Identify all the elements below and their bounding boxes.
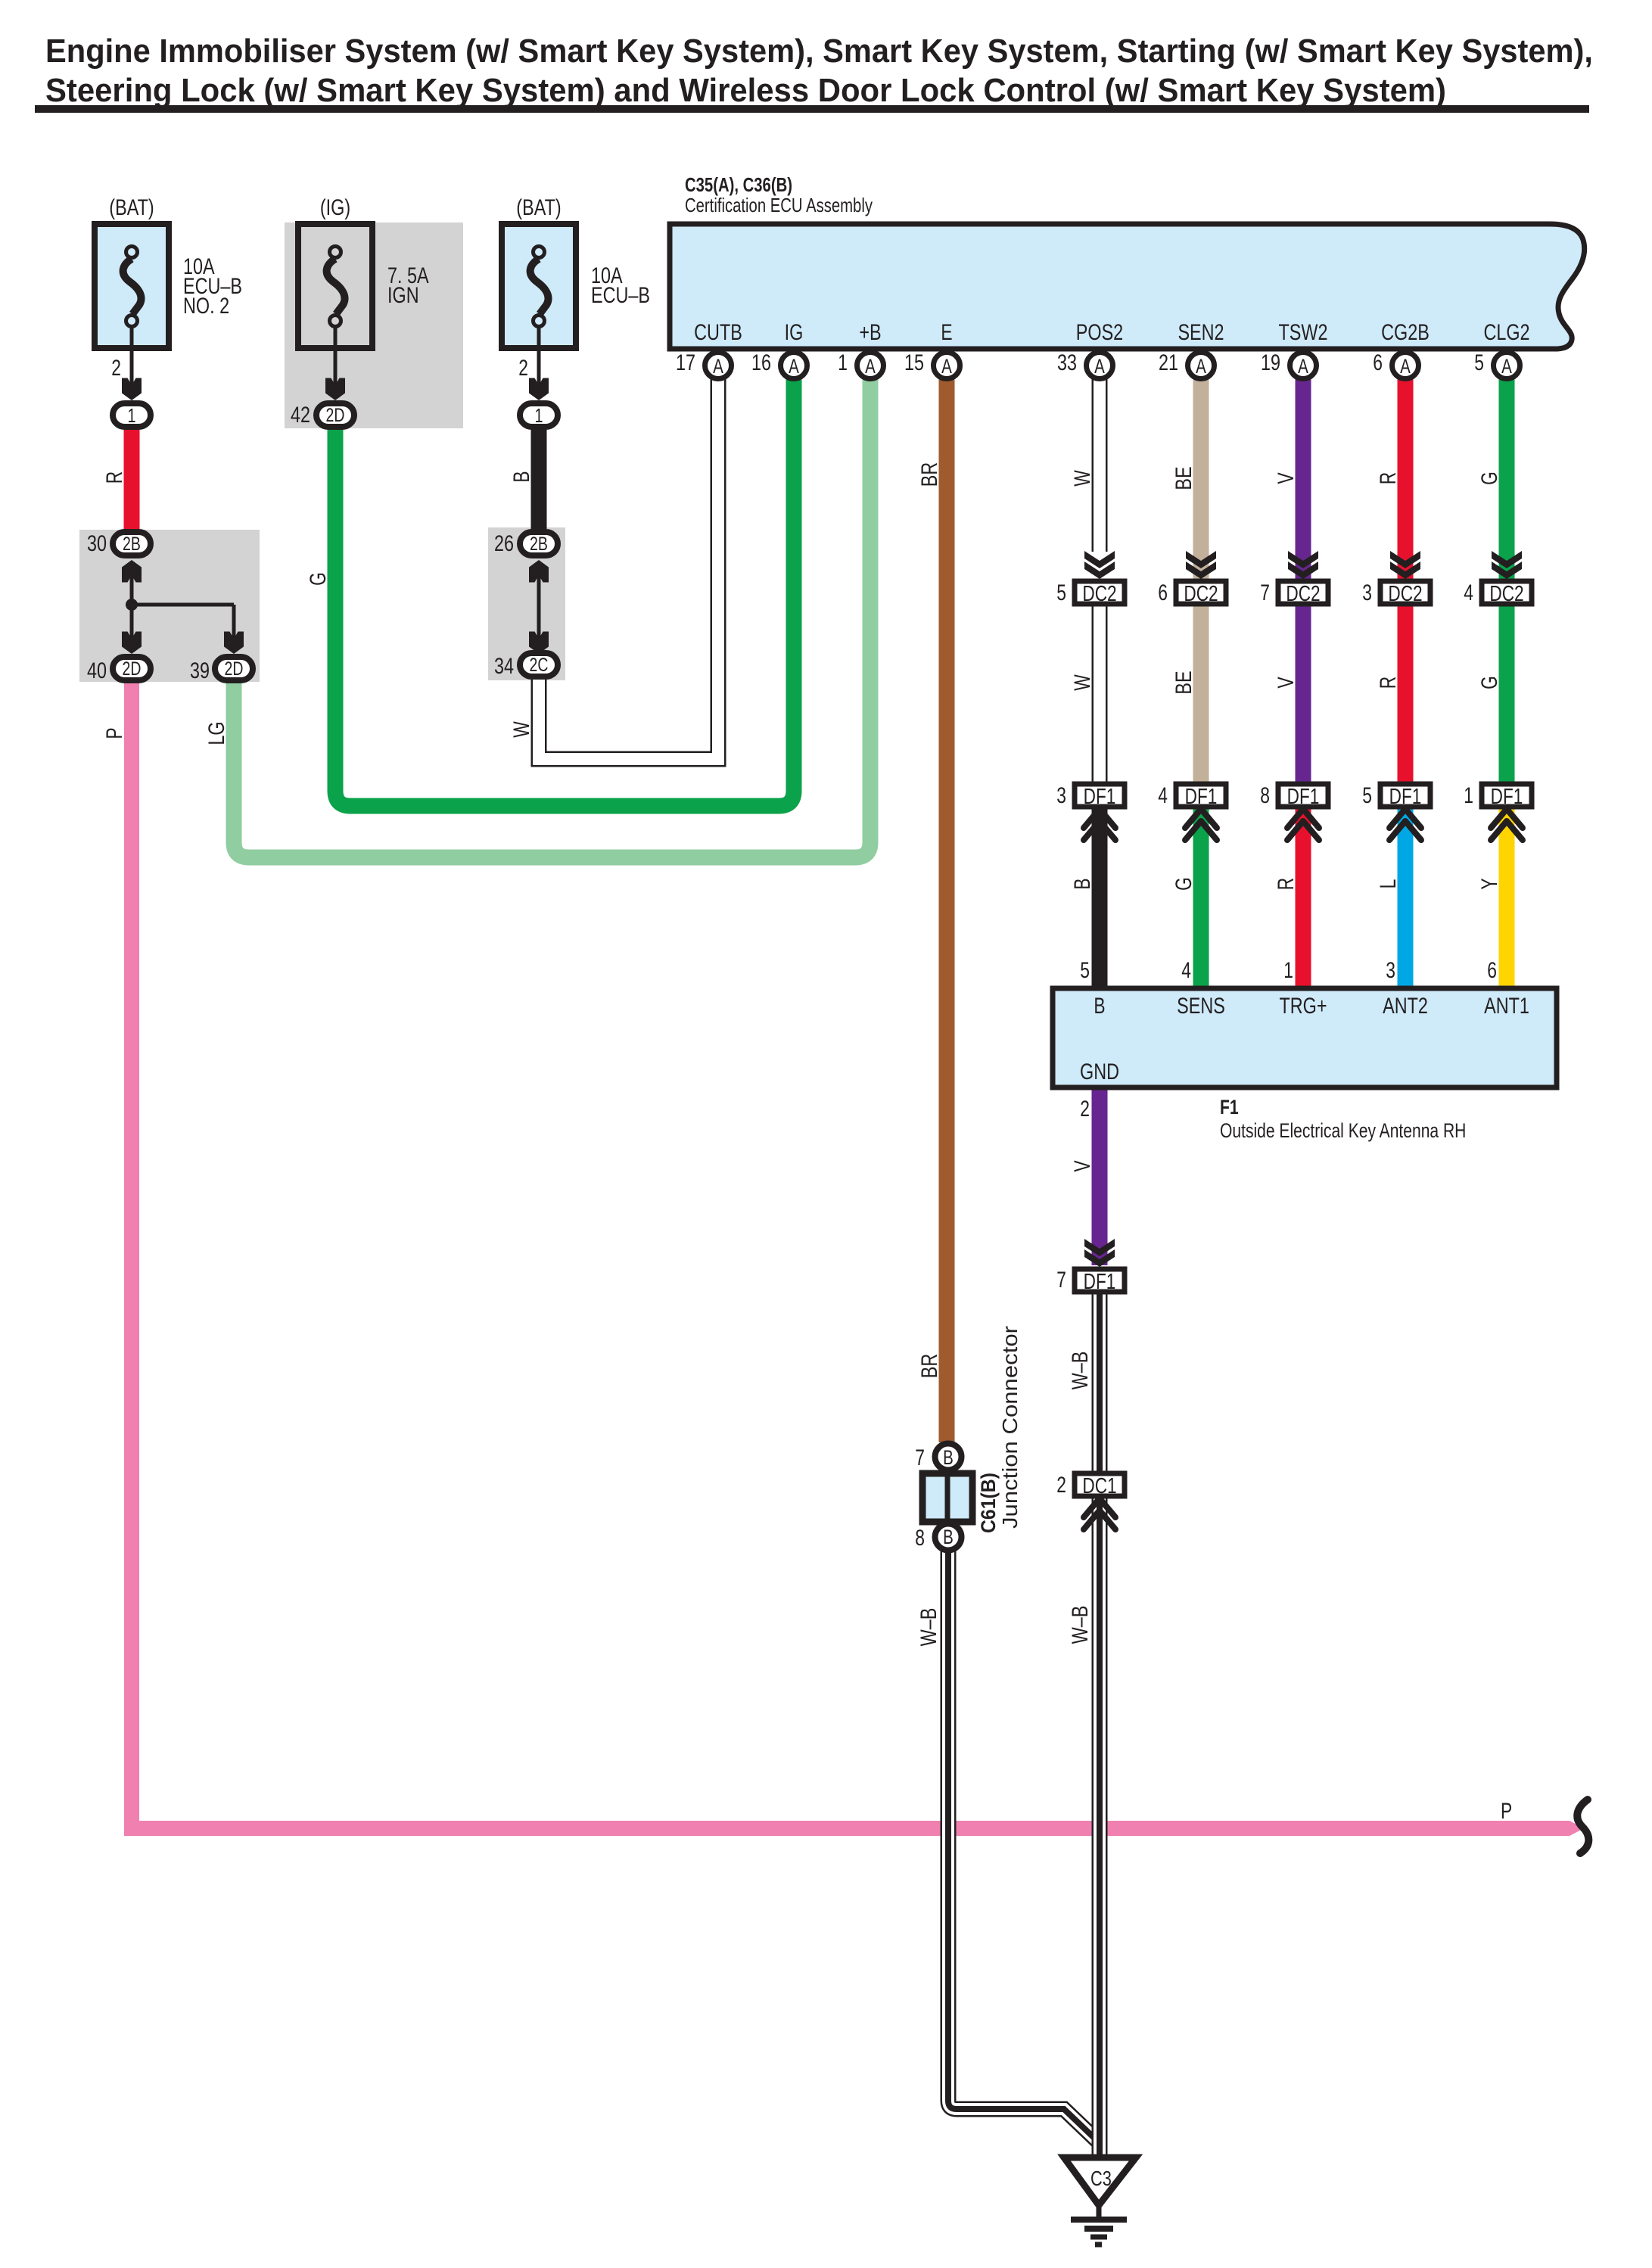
svg-text:8: 8 bbox=[915, 1526, 925, 1551]
svg-text:5: 5 bbox=[1362, 783, 1372, 808]
ECU pin 17 A (CUTB) bbox=[676, 350, 732, 379]
svg-text:DF1: DF1 bbox=[1084, 1270, 1116, 1294]
svg-text:B: B bbox=[943, 1526, 954, 1548]
svg-text:TRG+: TRG+ bbox=[1279, 994, 1327, 1019]
svg-text:W: W bbox=[1070, 470, 1095, 487]
svg-text:2D: 2D bbox=[225, 658, 244, 680]
wire L (5 DF1 to F1 pin ANT2) bbox=[1398, 807, 1414, 988]
svg-text:C3: C3 bbox=[1090, 2167, 1112, 2190]
ground stem bbox=[1097, 2205, 1102, 2220]
junction node dot bbox=[126, 599, 138, 611]
svg-text:E: E bbox=[941, 320, 952, 345]
ECU pin 5 A (CLG2) bbox=[1474, 350, 1520, 379]
svg-text:W–B: W–B bbox=[1068, 1352, 1093, 1390]
wire Y (1 DF1 to F1 pin ANT1) bbox=[1499, 807, 1515, 988]
svg-text:33: 33 bbox=[1057, 350, 1077, 375]
svg-text:2: 2 bbox=[1056, 1473, 1066, 1498]
ground bar 2 bbox=[1084, 2226, 1113, 2232]
arrow up into 26 2B bbox=[529, 560, 549, 583]
svg-text:V: V bbox=[1274, 677, 1299, 688]
svg-text:Engine Immobiliser System (w/: Engine Immobiliser System (w/ Smart Key … bbox=[45, 33, 1593, 70]
svg-text:A: A bbox=[1094, 355, 1105, 378]
grey junction block 2B/2C (fuse ECU-B column) bbox=[488, 527, 565, 680]
svg-text:2C: 2C bbox=[530, 655, 549, 676]
grey junction-block background behind fuse IG bbox=[285, 222, 463, 428]
wire G (42 2D to ECU pin IG) bbox=[335, 375, 794, 806]
arrow into 40 2D bbox=[122, 632, 142, 655]
chevron junction below 3 DF1 bbox=[1084, 809, 1115, 840]
Certification ECU Assembly box C35/C36 bbox=[670, 224, 1585, 349]
wire branch down to 39 2D bbox=[232, 605, 236, 639]
svg-text:IG: IG bbox=[785, 320, 804, 345]
svg-text:W–B: W–B bbox=[916, 1608, 941, 1647]
chevron junction into 7 DC2 bbox=[1288, 551, 1318, 579]
arrow up into 30 2B bbox=[122, 560, 142, 583]
title underline bbox=[35, 105, 1589, 113]
svg-text:IGN: IGN bbox=[387, 283, 419, 308]
wire BR (ECU pin E to C61 7B) bbox=[939, 375, 955, 1442]
svg-text:G: G bbox=[306, 572, 331, 586]
svg-text:1: 1 bbox=[1464, 783, 1473, 808]
svg-text:P: P bbox=[102, 727, 127, 739]
svg-text:7: 7 bbox=[1260, 580, 1270, 605]
svg-text:POS2: POS2 bbox=[1076, 320, 1123, 345]
wire W (ECU pin POS2 down to 3 DF1, white) bbox=[1092, 375, 1108, 784]
wire W-B (C61 8B down, right, into ground C3, left) bbox=[948, 1551, 1097, 2141]
fuse 7.5A IGN (IG) bbox=[298, 195, 429, 348]
svg-text:15: 15 bbox=[904, 350, 924, 375]
svg-text:39: 39 bbox=[190, 658, 210, 683]
arrow into 42 2D bbox=[325, 378, 345, 401]
svg-text:16: 16 bbox=[751, 350, 771, 375]
svg-text:4: 4 bbox=[1181, 958, 1191, 983]
svg-text:P: P bbox=[1501, 1799, 1512, 1824]
connector box 7 DC2 bbox=[1260, 580, 1328, 606]
svg-text:BE: BE bbox=[1171, 670, 1196, 694]
wire B (fuse ECU-B to 26 2B) bbox=[531, 427, 547, 532]
chevron junction below 1 DF1 bbox=[1491, 809, 1523, 840]
svg-text:Outside Electrical Key Antenna: Outside Electrical Key Antenna RH bbox=[1220, 1119, 1466, 1142]
C61 pin 8 B circle bbox=[915, 1524, 961, 1551]
chevron junction below 5 DF1 bbox=[1389, 809, 1421, 840]
svg-text:F1: F1 bbox=[1220, 1096, 1239, 1118]
svg-text:3: 3 bbox=[1362, 580, 1372, 605]
wire V (F1 GND pin 2 to 7 DF1) bbox=[1092, 1087, 1108, 1265]
wire V (ECU pin TSW2 down to 8 DF1) bbox=[1296, 375, 1311, 581]
connector box 5 DF1 bbox=[1362, 783, 1430, 809]
svg-text:CUTB: CUTB bbox=[694, 320, 742, 345]
svg-text:DF1: DF1 bbox=[1084, 785, 1116, 809]
svg-text:TSW2: TSW2 bbox=[1279, 320, 1328, 345]
svg-text:5: 5 bbox=[1056, 580, 1066, 605]
arrow into connector 1 bbox=[122, 378, 142, 401]
svg-text:1: 1 bbox=[1283, 958, 1293, 983]
svg-text:1: 1 bbox=[535, 404, 543, 427]
svg-text:A: A bbox=[865, 355, 876, 378]
connector box 2 DC1 bbox=[1056, 1473, 1125, 1498]
svg-text:(BAT): (BAT) bbox=[516, 195, 561, 220]
fuse 10A ECU-B (BAT) bbox=[502, 195, 650, 348]
svg-text:ECU–B: ECU–B bbox=[591, 283, 650, 308]
F1 Outside Electrical Key Antenna RH box bbox=[1053, 988, 1557, 1087]
title bbox=[45, 33, 1593, 109]
wire fuse ECU-B to connector 1 bbox=[537, 327, 541, 387]
connector box 7 DF1 bbox=[1056, 1268, 1125, 1294]
connector box 3 DC2 bbox=[1362, 580, 1430, 606]
svg-text:W: W bbox=[509, 721, 534, 738]
svg-text:6: 6 bbox=[1487, 958, 1497, 983]
fuse 10A ECU-B NO.2 (BAT) bbox=[95, 195, 242, 348]
svg-text:7: 7 bbox=[915, 1445, 925, 1470]
wire G (ECU pin CLG2 down to 1 DF1) bbox=[1499, 375, 1515, 581]
C61 box divider bbox=[945, 1473, 950, 1522]
svg-text:ANT2: ANT2 bbox=[1383, 994, 1428, 1019]
svg-text:(IG): (IG) bbox=[320, 195, 350, 220]
connector box 8 DF1 bbox=[1260, 783, 1328, 809]
svg-text:BR: BR bbox=[917, 1354, 942, 1379]
wire R (fuse ECU-B NO.2 to 30 2B) bbox=[124, 427, 140, 532]
svg-text:LG: LG bbox=[204, 721, 229, 745]
arrow into connector 1 (right) bbox=[529, 378, 549, 401]
svg-text:A: A bbox=[1501, 355, 1512, 378]
svg-text:DC2: DC2 bbox=[1286, 582, 1320, 606]
svg-text:SEN2: SEN2 bbox=[1178, 320, 1224, 345]
chevron junction into 4 DC2 bbox=[1492, 551, 1522, 579]
svg-text:A: A bbox=[1298, 355, 1308, 378]
grey junction block 2B/2D left bbox=[79, 530, 260, 682]
chevron junction below 8 DF1 bbox=[1287, 809, 1319, 840]
svg-text:B: B bbox=[509, 471, 534, 482]
svg-text:2B: 2B bbox=[530, 534, 548, 555]
connector box 3 DF1 bbox=[1056, 783, 1125, 809]
svg-text:W–B: W–B bbox=[1068, 1606, 1093, 1644]
svg-text:L: L bbox=[1376, 879, 1401, 889]
svg-text:A: A bbox=[1400, 355, 1411, 378]
ECU pin 19 A (TSW2) bbox=[1261, 350, 1317, 379]
ECU pin 1 A (+B) bbox=[838, 350, 883, 379]
svg-text:SENS: SENS bbox=[1177, 994, 1225, 1019]
svg-text:G: G bbox=[1477, 676, 1502, 689]
svg-text:6: 6 bbox=[1373, 350, 1383, 375]
svg-text:40: 40 bbox=[87, 658, 107, 683]
svg-text:BE: BE bbox=[1171, 466, 1196, 490]
svg-text:1: 1 bbox=[838, 350, 848, 375]
svg-text:V: V bbox=[1070, 1160, 1095, 1171]
svg-text:CG2B: CG2B bbox=[1381, 320, 1430, 345]
svg-text:V: V bbox=[1274, 472, 1299, 484]
svg-text:Certification ECU Assembly: Certification ECU Assembly bbox=[685, 194, 873, 216]
ground bar 4 bbox=[1095, 2242, 1102, 2248]
C61(B) junction connector box bbox=[922, 1473, 972, 1522]
svg-text:7: 7 bbox=[1056, 1268, 1066, 1293]
svg-text:G: G bbox=[1477, 471, 1502, 485]
svg-text:R: R bbox=[1376, 677, 1401, 689]
svg-text:DF1: DF1 bbox=[1185, 785, 1218, 809]
svg-text:DF1: DF1 bbox=[1389, 785, 1422, 809]
svg-text:2D: 2D bbox=[326, 405, 345, 426]
svg-text:B: B bbox=[1094, 994, 1105, 1019]
svg-text:R: R bbox=[1274, 878, 1299, 891]
ground bar 1 bbox=[1071, 2217, 1127, 2223]
ECU pin 16 A (IG) bbox=[751, 350, 807, 379]
wire W (34 2C to ECU pin CUTB, white) bbox=[539, 375, 718, 759]
svg-text:Steering Lock (w/ Smart Key Sy: Steering Lock (w/ Smart Key System) and … bbox=[45, 72, 1446, 109]
wire fuse (IG) to connector 42 2D bbox=[334, 327, 338, 387]
svg-text:(BAT): (BAT) bbox=[109, 195, 154, 220]
svg-text:4: 4 bbox=[1158, 783, 1168, 808]
svg-text:A: A bbox=[1196, 355, 1206, 378]
connector box 1 DF1 bbox=[1464, 783, 1532, 809]
svg-text:A: A bbox=[941, 355, 952, 378]
svg-text:5: 5 bbox=[1474, 350, 1484, 375]
connector box 5 DC2 bbox=[1056, 580, 1125, 606]
svg-text:3: 3 bbox=[1056, 783, 1066, 808]
svg-text:2B: 2B bbox=[123, 534, 141, 555]
wire P (pink) from 40 2D down and across bottom bbox=[132, 683, 1570, 1828]
connector 40 2D bbox=[87, 657, 151, 683]
svg-text:R: R bbox=[102, 471, 127, 484]
ECU pin 15 A (E) bbox=[904, 350, 960, 379]
svg-text:8: 8 bbox=[1260, 783, 1270, 808]
connector 30 2B bbox=[87, 531, 151, 556]
wire 26 2B to 34 2C bbox=[537, 575, 541, 639]
svg-text:2: 2 bbox=[518, 356, 528, 381]
svg-text:3: 3 bbox=[1386, 958, 1395, 983]
svg-text:B: B bbox=[1070, 878, 1095, 889]
connector box 6 DC2 bbox=[1158, 580, 1226, 606]
svg-text:NO. 2: NO. 2 bbox=[183, 294, 229, 319]
svg-text:17: 17 bbox=[676, 350, 695, 375]
svg-text:W: W bbox=[1070, 674, 1095, 691]
svg-text:+B: +B bbox=[859, 320, 881, 345]
svg-text:DC2: DC2 bbox=[1184, 582, 1218, 606]
svg-text:DC2: DC2 bbox=[1082, 582, 1116, 606]
svg-text:DF1: DF1 bbox=[1491, 785, 1523, 809]
wire junction dot to 39 branch bbox=[132, 603, 234, 607]
chevron junction into 5 DC2 bbox=[1084, 551, 1115, 579]
svg-text:6: 6 bbox=[1158, 580, 1168, 605]
wire W-B (7 DF1 to 2 DC1 to ground C3, right) bbox=[1092, 1293, 1108, 2159]
wire R (8 DF1 to F1 pin TRG+) bbox=[1296, 807, 1311, 988]
chevron junction into 6 DC2 bbox=[1186, 551, 1216, 579]
svg-text:R: R bbox=[1376, 472, 1401, 485]
svg-text:2D: 2D bbox=[123, 658, 142, 680]
chevron junction into 7 DF1 bbox=[1084, 1239, 1115, 1267]
ECU pin 33 A (POS2) bbox=[1057, 350, 1113, 379]
svg-text:2: 2 bbox=[111, 356, 121, 381]
svg-text:4: 4 bbox=[1464, 580, 1473, 605]
wire G (4 DF1 to F1 pin SENS) bbox=[1193, 807, 1209, 988]
connector oval 1 (right) bbox=[520, 403, 558, 427]
chevron junction below 2 DC1 bbox=[1084, 1498, 1115, 1529]
C61 pin 7 B circle bbox=[915, 1444, 961, 1471]
wire fuse (BAT) to connector 1 bbox=[130, 327, 134, 387]
svg-text:34: 34 bbox=[494, 654, 514, 679]
connector 39 2D bbox=[190, 657, 253, 683]
svg-text:ANT1: ANT1 bbox=[1484, 994, 1529, 1019]
svg-text:A: A bbox=[713, 355, 723, 378]
svg-text:DC1: DC1 bbox=[1082, 1474, 1116, 1498]
svg-text:2: 2 bbox=[1080, 1097, 1090, 1122]
ground C3 triangle bbox=[1064, 2158, 1136, 2205]
wire dot down to 40 2D bbox=[130, 605, 134, 639]
svg-text:B: B bbox=[943, 1446, 954, 1469]
svg-text:C35(A), C36(B): C35(A), C36(B) bbox=[685, 173, 792, 196]
svg-text:Junction Connector: Junction Connector bbox=[998, 1326, 1022, 1529]
wire P break squiggle at right end bbox=[1577, 1800, 1588, 1853]
svg-text:30: 30 bbox=[87, 531, 107, 556]
arrow into 39 2D bbox=[224, 632, 244, 655]
svg-text:DF1: DF1 bbox=[1287, 785, 1320, 809]
wire R (ECU pin CG2B down to 5 DF1) bbox=[1398, 375, 1414, 581]
chevron junction below 4 DF1 bbox=[1185, 809, 1217, 840]
ground bar 3 bbox=[1090, 2235, 1107, 2240]
connector box 4 DF1 bbox=[1158, 783, 1226, 809]
connector box 4 DC2 bbox=[1464, 580, 1532, 606]
ECU pin 21 A (SEN2) bbox=[1159, 350, 1215, 379]
svg-text:21: 21 bbox=[1159, 350, 1178, 375]
svg-text:CLG2: CLG2 bbox=[1483, 320, 1529, 345]
wire 2B to junction dot bbox=[130, 575, 134, 605]
wire B (3 DF1 to F1 pin 5) bbox=[1092, 807, 1108, 988]
svg-text:42: 42 bbox=[291, 403, 310, 428]
chevron junction into 3 DC2 bbox=[1390, 551, 1420, 579]
wire BE (ECU pin SEN2 down to 4 DF1) bbox=[1193, 375, 1209, 581]
arrow into 34 2C bbox=[529, 632, 549, 655]
connector 34 2C bbox=[494, 653, 558, 679]
svg-text:C61(B): C61(B) bbox=[977, 1473, 1000, 1533]
connector 26 2B bbox=[494, 531, 558, 556]
wire LG (39 2D to ECU pin +B) bbox=[234, 375, 870, 857]
svg-text:DC2: DC2 bbox=[1489, 582, 1523, 606]
svg-text:GND: GND bbox=[1080, 1059, 1119, 1084]
svg-text:G: G bbox=[1171, 877, 1196, 891]
svg-text:5: 5 bbox=[1080, 958, 1090, 983]
ECU pin 6 A (CG2B) bbox=[1373, 350, 1418, 379]
connector oval 1 (left) bbox=[113, 403, 151, 427]
svg-text:DC2: DC2 bbox=[1388, 582, 1422, 606]
svg-text:1: 1 bbox=[128, 404, 136, 427]
connector 42 2D bbox=[291, 403, 354, 428]
svg-text:Y: Y bbox=[1477, 878, 1502, 889]
svg-text:A: A bbox=[789, 355, 799, 378]
svg-text:26: 26 bbox=[494, 531, 514, 556]
svg-text:19: 19 bbox=[1261, 350, 1280, 375]
svg-text:BR: BR bbox=[917, 462, 942, 487]
